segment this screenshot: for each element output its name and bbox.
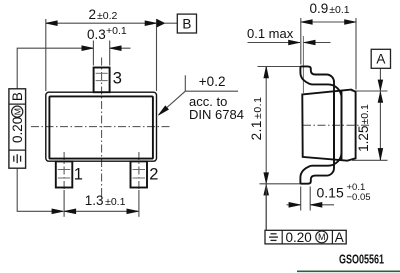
extension top of package	[258, 66, 301, 68]
datum B box	[177, 14, 196, 33]
pin 2 inner marks	[133, 169, 146, 171]
svg-text:3: 3	[113, 69, 122, 87]
svg-text:0.1 max: 0.1 max	[247, 26, 294, 41]
dimension line 2 +-0.2	[46, 22, 157, 24]
pin 1 inner marks	[58, 169, 71, 171]
dimension 0.15 arrows	[287, 204, 301, 206]
svg-text:B: B	[182, 16, 191, 31]
pin 2	[131, 161, 148, 187]
svg-text:+0.1: +0.1	[106, 25, 127, 37]
svg-text:0.9±0.1: 0.9±0.1	[310, 1, 350, 16]
extension 0.9 right	[355, 18, 357, 90]
svg-text:M: M	[12, 108, 22, 115]
dimension 0.3 left arrow with leader from datum frame	[17, 48, 93, 89]
extension seating plane	[260, 183, 301, 185]
package body side view	[302, 90, 355, 161]
dimension 0.3 right arrow	[110, 47, 131, 49]
extension body top right	[352, 90, 388, 92]
svg-text:B: B	[10, 92, 25, 101]
svg-text:DIN 6784: DIN 6784	[189, 107, 244, 122]
centerline horizontal left view	[31, 126, 171, 128]
svg-text:GSO05561: GSO05561	[339, 253, 384, 267]
datum B triangle	[157, 19, 165, 27]
svg-text:0.3: 0.3	[87, 27, 106, 42]
svg-text:1.25±0.1: 1.25±0.1	[356, 104, 371, 152]
dimension line 1.3	[64, 210, 138, 212]
tolerance frame bottom (0.20 M A)	[265, 230, 346, 244]
extension line body right	[156, 19, 158, 91]
tolerance frame left (0.20 M B)	[9, 89, 26, 168]
svg-text:0.20: 0.20	[10, 117, 25, 143]
extension body edge 0.1max	[302, 36, 304, 93]
svg-text:A: A	[376, 52, 385, 67]
symmetry symbol	[271, 233, 277, 235]
extension line pin3 right	[109, 41, 111, 66]
svg-text:M: M	[318, 232, 326, 242]
dimension 1.3 leader from datum frame	[17, 168, 63, 211]
pin1 centerline	[63, 152, 65, 190]
dimension line 1.25 and datum A leader	[379, 68, 381, 160]
extension 0.15 left	[300, 187, 302, 211]
frame leader bottom	[265, 185, 267, 231]
svg-text:1.3±0.1: 1.3±0.1	[85, 193, 126, 208]
note leader DIN 6784	[184, 75, 186, 91]
dimension line 2.1	[265, 67, 267, 231]
svg-text:1: 1	[74, 166, 83, 184]
svg-text:2.1±0.1: 2.1±0.1	[249, 97, 264, 141]
body outline inner	[49, 96, 152, 158]
body outline outer	[46, 92, 157, 161]
dimension 0.1 max leader	[248, 42, 301, 44]
svg-text:0.20: 0.20	[286, 230, 312, 245]
svg-text:0.15: 0.15	[317, 184, 344, 200]
centerline horizontal right view	[303, 124, 371, 126]
extension body bottom right	[352, 159, 388, 161]
extension line body left	[45, 19, 47, 91]
svg-text:2±0.2: 2±0.2	[89, 7, 118, 22]
svg-text:−0.05: −0.05	[347, 192, 371, 203]
extension 0.9 left	[300, 18, 302, 65]
pin 3 top lead	[94, 68, 110, 93]
svg-text:+0.2: +0.2	[199, 74, 226, 89]
svg-text:2: 2	[149, 166, 158, 184]
top lead side profile	[300, 66, 341, 160]
pin2 centerline	[138, 152, 140, 190]
symmetry symbol rotated	[13, 156, 15, 162]
centerline vertical left view	[101, 58, 103, 198]
pin 1	[56, 161, 73, 187]
svg-text:A: A	[335, 230, 344, 245]
bottom lead side profile	[300, 90, 341, 184]
green rule	[297, 270, 400, 272]
pin 3 inner marks	[96, 72, 108, 74]
extension line pin3 left	[92, 41, 94, 66]
dimension line 0.9	[301, 21, 356, 23]
extension 0.15 right	[309, 187, 311, 211]
datum A box	[371, 49, 390, 68]
